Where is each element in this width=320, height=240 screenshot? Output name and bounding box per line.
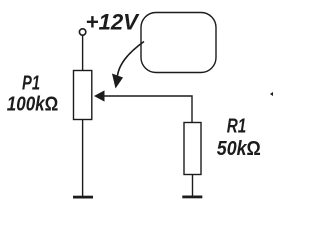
svg-text:100kΩ: 100kΩ <box>7 93 59 115</box>
svg-text:+12V: +12V <box>86 10 141 35</box>
svg-text:P1: P1 <box>22 73 40 95</box>
svg-text:50kΩ: 50kΩ <box>217 138 261 160</box>
svg-text:R1: R1 <box>227 116 247 138</box>
